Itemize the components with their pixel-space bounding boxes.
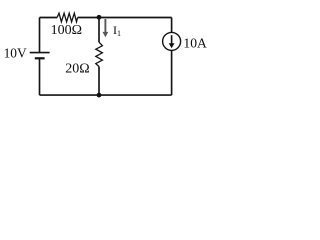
current source I2 arrow (pointing down) xyxy=(169,35,175,48)
wire: top segment left of R1 xyxy=(40,17,58,19)
wire: left branch upper (corner to battery) xyxy=(39,18,41,53)
svg-text:10A: 10A xyxy=(183,36,207,51)
current annotation arrow I1 (gray, pointing down) xyxy=(103,19,109,37)
resistor R1 100Ω (horizontal zigzag) xyxy=(57,13,78,22)
wire: right branch upper (corner to current source) xyxy=(171,18,173,33)
wire: top segment right of R1 to node A xyxy=(78,17,99,19)
node A junction dot (top) xyxy=(97,15,102,20)
svg-text:I1: I1 xyxy=(113,23,121,38)
svg-text:20Ω: 20Ω xyxy=(65,61,89,76)
node B junction dot (bottom) xyxy=(97,93,102,98)
wire: bottom segment xyxy=(40,94,172,96)
svg-text:10V: 10V xyxy=(4,45,27,60)
wire: right branch lower (current source to bottom corner) xyxy=(171,50,173,95)
current source I2 10A: circle xyxy=(163,32,181,50)
voltage source V1 10V battery: long plate xyxy=(30,52,50,54)
wire: middle branch lower (R2 to node B) xyxy=(98,67,100,96)
resistor R2 20Ω (vertical zigzag) xyxy=(96,42,103,66)
wire: middle branch upper (node A to R2) xyxy=(98,18,100,43)
svg-text:100Ω: 100Ω xyxy=(51,23,82,38)
wire: left branch lower (battery to bottom corner) xyxy=(39,58,41,95)
wire: top segment node A to top-right corner xyxy=(99,17,172,19)
voltage source V1 10V battery: short plate xyxy=(35,57,45,59)
